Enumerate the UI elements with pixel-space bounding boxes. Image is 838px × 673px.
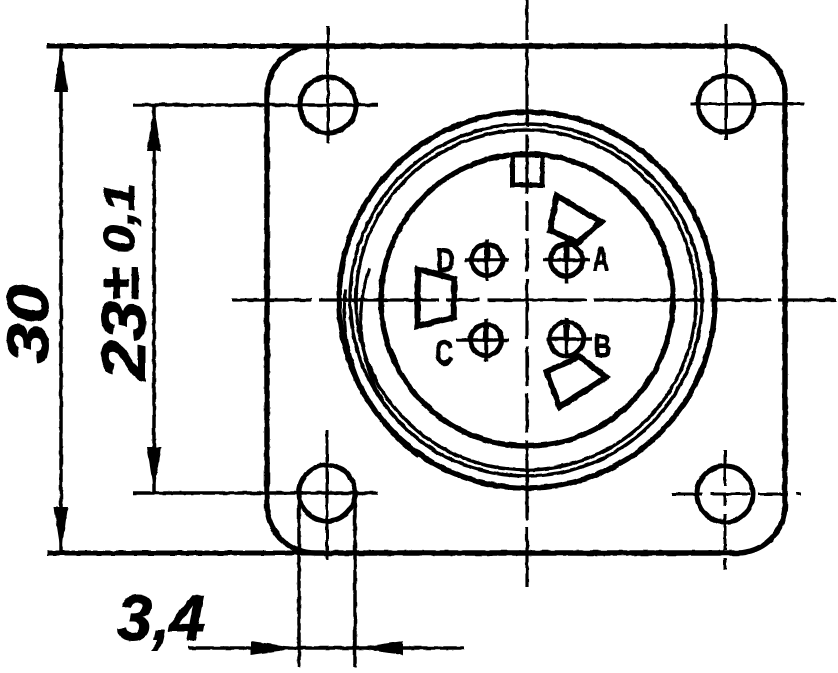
mounting hole top-right xyxy=(698,76,754,132)
keyway trapezoid upper-right xyxy=(550,196,601,243)
keyway trapezoid left xyxy=(417,269,454,326)
svg-text:23± 0,1: 23± 0,1 xyxy=(90,183,159,382)
polarizing key slot at top xyxy=(513,155,543,185)
mounting hole bottom-left xyxy=(299,465,355,521)
connector ring circle 3 xyxy=(356,130,696,470)
svg-text:D: D xyxy=(436,242,455,280)
arrowhead 3,4 left xyxy=(251,641,299,655)
connector outer circle xyxy=(339,112,715,488)
svg-text:B: B xyxy=(594,328,611,364)
hole TR vertical centerline xyxy=(725,24,728,140)
mounting hole top-left xyxy=(300,77,356,133)
pin B contact xyxy=(546,318,592,357)
extension line 3,4 left (hole tangent) xyxy=(297,500,301,667)
arrowhead 23 bottom xyxy=(147,447,161,493)
extension line 3,4 right (hole tangent) xyxy=(353,500,357,667)
ring scan double-line arc lower-left xyxy=(361,268,390,411)
mounting hole bottom-right xyxy=(697,466,753,522)
dimension line 30 xyxy=(59,48,63,551)
pin C contact xyxy=(456,319,509,361)
svg-text:3,4: 3,4 xyxy=(117,582,205,654)
extension line bottom (flange bottom edge extended left for dim 30) xyxy=(47,551,330,556)
extension line 23 bottom (through lower-left hole) xyxy=(133,491,378,495)
extension line 23 top (through upper-left hole) xyxy=(133,103,378,107)
ring scan double-line arc lower-left outer xyxy=(344,289,419,457)
svg-text:C: C xyxy=(435,334,453,373)
extension line top (flange top edge extended left for dim 30) xyxy=(47,44,330,49)
flange outline (rounded square body) xyxy=(267,46,785,553)
dimension line 3,4 xyxy=(188,646,464,650)
arrowhead 30 bottom xyxy=(54,507,68,553)
keyway trapezoid lower-right xyxy=(547,357,607,407)
hole TL vertical centerline xyxy=(327,26,330,143)
connector ring circle 2 xyxy=(350,124,702,476)
dimension line 23 xyxy=(152,106,156,492)
pin D contact xyxy=(465,239,509,281)
hole BR vertical centerline xyxy=(724,450,727,575)
connector inner face circle xyxy=(381,154,673,446)
horizontal centerline of connector xyxy=(232,298,836,301)
arrowhead 30 top xyxy=(54,46,68,92)
hole BR horizontal centerline xyxy=(672,493,801,496)
vertical centerline of connector xyxy=(525,0,528,588)
svg-text:30: 30 xyxy=(0,284,61,363)
hole TR horizontal centerline xyxy=(690,103,804,106)
pin A contact xyxy=(543,238,590,284)
svg-text:A: A xyxy=(593,241,609,277)
arrowhead 3,4 right xyxy=(355,641,403,655)
arrowhead 23 top xyxy=(147,105,161,151)
hole BL vertical centerline xyxy=(326,430,329,560)
